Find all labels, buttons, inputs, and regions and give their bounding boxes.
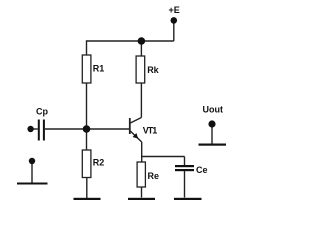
terminal input xyxy=(27,126,33,132)
node junction base xyxy=(83,125,91,133)
terminal Uout xyxy=(203,105,224,128)
terminal input ground dot xyxy=(29,158,35,164)
resistor R1 xyxy=(82,55,104,83)
ground input xyxy=(17,183,48,185)
wire Ce top xyxy=(184,157,186,166)
wire Ce to ground xyxy=(184,171,186,198)
wire collector xyxy=(140,83,142,118)
svg-text:R2: R2 xyxy=(93,158,105,168)
node junction top (Rk tap) xyxy=(138,37,146,45)
terminal +E xyxy=(169,5,180,24)
wire Uout stem xyxy=(211,127,213,144)
wire input ground stem xyxy=(31,164,33,183)
ground Ce xyxy=(174,198,202,200)
wire R1 to base node to R2 xyxy=(86,83,88,150)
wire +E drop xyxy=(173,23,175,41)
svg-text:Uout: Uout xyxy=(203,105,224,115)
resistor Re xyxy=(137,162,159,187)
resistor R2 xyxy=(82,150,104,178)
ground R2 xyxy=(74,198,101,200)
wire top rail xyxy=(87,41,174,55)
svg-text:R1: R1 xyxy=(93,64,105,74)
wire base row xyxy=(45,128,129,130)
resistor Rk xyxy=(136,56,160,83)
capacitor Cp xyxy=(33,107,48,141)
svg-text:+E: +E xyxy=(169,5,180,15)
svg-text:Ce: Ce xyxy=(196,165,208,175)
wire Rk top xyxy=(140,41,142,56)
wire emitter to Re xyxy=(141,142,143,162)
transistor VT1 xyxy=(130,118,158,143)
capacitor Ce xyxy=(175,165,208,175)
wire R2 to ground xyxy=(86,178,88,199)
svg-text:Cp: Cp xyxy=(36,107,48,117)
ground Re xyxy=(128,198,155,200)
svg-text:Rk: Rk xyxy=(147,65,159,75)
svg-text:Re: Re xyxy=(148,171,160,181)
ground Uout xyxy=(199,144,227,146)
wire emitter node to Ce xyxy=(142,156,185,158)
wire Re to ground xyxy=(141,187,143,198)
svg-text:VT1: VT1 xyxy=(143,126,158,136)
